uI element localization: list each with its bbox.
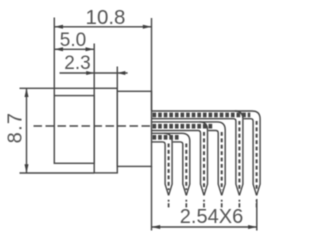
pin A tip tail dash (168, 200, 170, 208)
dim line 2.54X6 (152, 226, 257, 228)
pin C outer bend (200, 122, 208, 195)
arrow 2.3 right (117, 71, 125, 75)
pin A outer bend (164, 133, 172, 195)
centerline (34, 125, 152, 127)
svg-text:2.54X6: 2.54X6 (180, 206, 243, 228)
pin E centerline dashes (238, 121, 240, 190)
extension line right (151, 18, 153, 111)
dim line 8.7 (26, 88, 28, 173)
arrow 5.0 right (86, 47, 95, 51)
pin D centerline dashes (221, 132, 223, 190)
arrow 2.54 right (248, 225, 257, 229)
pin E inner bend / band bottom line (152, 119, 240, 196)
svg-text:8.7: 8.7 (5, 112, 27, 144)
extension line 8.7 bottom (20, 172, 95, 174)
pin A/B band top line with B outer bend (152, 133, 190, 195)
pin C/D band top line with D outer bend (152, 122, 226, 195)
pins E/F horizontal centerline dashes (153, 113, 251, 118)
body main block (54, 96, 94, 164)
extension line 8.7 top (20, 87, 95, 89)
pin F inner bend segment (244, 119, 257, 196)
arrow 2.54 left (152, 225, 161, 229)
dim line 10.8 (54, 26, 151, 28)
pin D tip tail dash (221, 200, 223, 208)
body flange (94, 88, 117, 173)
extension line left top (53, 18, 55, 96)
pin B tip tail dash (185, 200, 187, 208)
pin F tip tail dash (256, 200, 258, 208)
extension line 5.0 (93, 44, 95, 89)
pin A inner bend / band bottom line (152, 142, 169, 196)
extension line 2.54 left (151, 166, 153, 230)
svg-text:5.0: 5.0 (60, 30, 86, 51)
extension line 2.54 right (256, 199, 258, 231)
arrow 8.7 bottom (25, 164, 29, 173)
pin A centerline dashes (168, 144, 170, 191)
arrow 8.7 top (25, 88, 29, 97)
svg-text:2.3: 2.3 (64, 53, 90, 74)
pin C inner bend / band bottom line (152, 131, 205, 196)
pin C centerline dashes (203, 132, 205, 190)
pin B centerline dashes (185, 144, 187, 191)
svg-text:10.8: 10.8 (86, 6, 126, 29)
body pin block (117, 91, 151, 166)
pins C/D horizontal centerline dashes (153, 124, 215, 129)
dim line 5.0 (54, 48, 94, 50)
arrow 5.0 left (54, 47, 63, 51)
pin E/F band top line with F outer bend (152, 111, 261, 195)
arrow 10.8 right (143, 25, 152, 29)
pin D fill (152, 121, 226, 195)
pin E outer bend (235, 111, 243, 195)
pins A/B horizontal centerline dashes (153, 135, 179, 140)
arrow 2.3 left (86, 71, 94, 75)
extension line 2.3 (116, 67, 118, 92)
pin C tip tail dash (203, 200, 205, 208)
pin D inner bend segment (208, 131, 222, 196)
pin F centerline dashes (256, 121, 258, 190)
arrow 10.8 left (54, 25, 63, 29)
pin F fill (152, 110, 261, 195)
dim line 2.3 (60, 72, 128, 74)
pin B fill (152, 133, 191, 196)
pin E tip tail dash (238, 200, 240, 208)
pin B inner bend segment (173, 142, 187, 196)
